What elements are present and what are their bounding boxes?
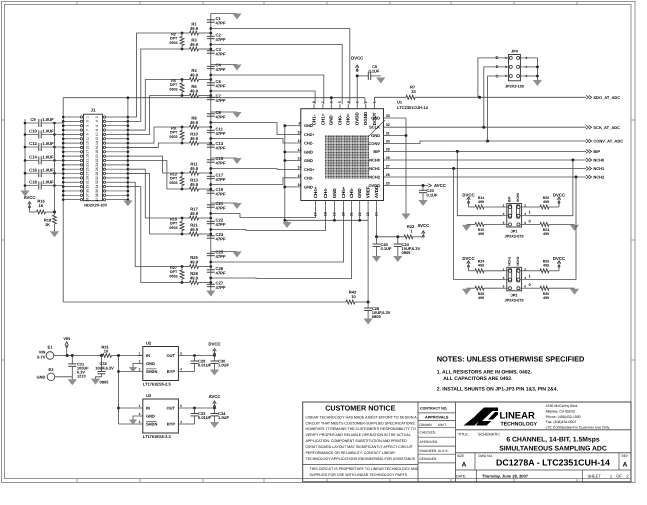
svg-text:APPROVALS: APPROVALS xyxy=(425,416,449,420)
U1 bottom pin 22 GND xyxy=(359,201,361,206)
power AVCC at R16 xyxy=(29,203,31,208)
svg-text:1.0UF: 1.0UF xyxy=(218,415,229,420)
jumper JP2 JP2X3-079 xyxy=(507,267,522,291)
svg-text:47PF: 47PF xyxy=(216,131,226,136)
wire CH4+ to U1 pin17 xyxy=(211,205,316,217)
resistor R31 10 xyxy=(72,355,102,357)
ground at C32 xyxy=(91,379,100,385)
svg-text:1: 1 xyxy=(85,116,89,118)
svg-text:GND: GND xyxy=(329,114,334,125)
svg-text:CH4+: CH4+ xyxy=(313,186,318,198)
svg-text:0.1UF: 0.1UF xyxy=(427,192,438,197)
ground at U1 bottom bus xyxy=(286,220,288,222)
wire CH5+ to U1 pin20 xyxy=(211,205,344,262)
capacitor C26 47PF xyxy=(207,269,215,271)
capacitor C15 47PF xyxy=(207,159,215,161)
svg-text:VIN: VIN xyxy=(63,336,70,341)
svg-text:NCH0: NCH0 xyxy=(593,158,605,163)
ground at C5 xyxy=(376,78,385,84)
ground tap on cap column xyxy=(211,251,237,253)
ground at C30 xyxy=(210,370,219,376)
U1 top pin 5 CH0- xyxy=(339,104,341,109)
wire U2 BYP to C29 xyxy=(183,371,194,373)
svg-text:SIMULTANEOUS SAMPLING ADC: SIMULTANEOUS SAMPLING ADC xyxy=(499,445,607,452)
svg-text:CH4-: CH4- xyxy=(323,187,328,198)
svg-text:DESIGNER:: DESIGNER: xyxy=(420,457,438,461)
svg-text:2: 2 xyxy=(626,473,629,478)
wire CH3+ to U1 pin14 xyxy=(211,168,296,171)
svg-text:5: 5 xyxy=(503,221,505,225)
ground at top of cap column xyxy=(211,13,237,15)
resistor R15 499 to ground xyxy=(484,223,503,225)
wire SCK_AT_ADC xyxy=(388,126,586,128)
svg-text:6: 6 xyxy=(524,221,526,225)
U1 left pin 16 GND xyxy=(296,186,301,188)
svg-text:14: 14 xyxy=(298,165,302,169)
svg-text:499: 499 xyxy=(478,200,484,204)
svg-text:1.0UF: 1.0UF xyxy=(42,117,54,122)
svg-text:5: 5 xyxy=(503,285,505,289)
svg-text:0.1UF: 0.1UF xyxy=(369,69,380,74)
svg-text:2: 2 xyxy=(139,412,141,416)
U1 right pin 26 NCH2 xyxy=(384,176,389,178)
svg-text:U3: U3 xyxy=(146,393,152,398)
svg-text:GND: GND xyxy=(304,184,313,189)
ground at C20 xyxy=(418,200,427,206)
svg-text:APPLICATION. COMPONENT SUBSTIT: APPLICATION. COMPONENT SUBSTITUTION AND … xyxy=(306,439,408,443)
wire NCH2 xyxy=(388,176,586,178)
wire NCH0 into JP1 pin4 xyxy=(526,160,573,216)
capacitor C40 0.1UF xyxy=(376,237,378,244)
connector J1 xyxy=(84,114,103,201)
power DVCC right of JP2 xyxy=(558,262,560,267)
svg-text:34: 34 xyxy=(95,185,99,189)
svg-text:OGND: OGND xyxy=(363,111,368,125)
svg-text:CH0+: CH0+ xyxy=(346,113,351,125)
svg-text:33: 33 xyxy=(386,114,390,118)
U1 top pin 3 OVDD xyxy=(356,104,358,109)
capacitor C34 1.0UF xyxy=(214,408,216,414)
U1 top pin 1 DOUT xyxy=(373,104,375,109)
ground at J1 right bus xyxy=(123,200,132,206)
svg-text:47PF: 47PF xyxy=(216,37,226,42)
svg-text:AVCC: AVCC xyxy=(434,183,446,188)
svg-text:GND: GND xyxy=(146,361,155,366)
svg-text:9: 9 xyxy=(85,133,89,135)
svg-text:TECHNOLOGY APPLICATIONS ENGINE: TECHNOLOGY APPLICATIONS ENGINEERING FOR … xyxy=(306,457,417,461)
wire CH2- to U1 pin11 xyxy=(211,139,296,144)
ground tap on cap column xyxy=(211,157,237,159)
node CONV_AT_ADC flag xyxy=(586,139,592,143)
svg-text:1630 McCarthy Blvd.: 1630 McCarthy Blvd. xyxy=(546,404,579,408)
svg-text:BIP: BIP xyxy=(373,149,380,154)
svg-text:32: 32 xyxy=(95,180,99,184)
U1 bottom pin 19 GND xyxy=(334,201,336,206)
svg-text:Fax: (408)434-0507: Fax: (408)434-0507 xyxy=(546,420,577,424)
svg-text:SDO_AT_ADC: SDO_AT_ADC xyxy=(593,95,620,100)
svg-text:5: 5 xyxy=(338,101,342,103)
U1 right pin 33 GND xyxy=(384,117,389,119)
svg-text:AVCC: AVCC xyxy=(417,223,429,228)
wire J1 left bus xyxy=(62,98,64,201)
svg-text:LTC2351CUH-14: LTC2351CUH-14 xyxy=(397,105,429,110)
svg-text:0: 0 xyxy=(529,282,532,287)
resistor R13 49.9 xyxy=(182,188,190,190)
svg-text:JP2: JP2 xyxy=(511,293,518,297)
U1 right pin 32 SCLK xyxy=(384,126,389,128)
svg-text:AVCC: AVCC xyxy=(24,195,36,200)
wire U1 pad to pin 33 xyxy=(369,120,385,136)
svg-text:47PF: 47PF xyxy=(216,51,226,56)
node SDO_AT_ADC flag xyxy=(586,95,592,99)
ground at C34 xyxy=(210,422,219,428)
resistor R3 49.9 xyxy=(182,48,190,50)
wire CH3- to U1 pin15 xyxy=(211,178,296,185)
svg-text:LINEAR: LINEAR xyxy=(500,410,536,421)
svg-text:10: 10 xyxy=(351,294,356,299)
svg-text:THIS CIRCUIT IS PROPRIETARY TO: THIS CIRCUIT IS PROPRIETARY TO LINEAR TE… xyxy=(310,467,419,471)
wire NCH1 xyxy=(388,168,586,170)
power DVCC right of JP1 xyxy=(558,199,560,204)
svg-text:47PF: 47PF xyxy=(216,177,226,182)
wire VREF pin23 down xyxy=(367,205,369,302)
svg-text:U2: U2 xyxy=(146,341,152,346)
U1 left pin 9 GND xyxy=(296,125,301,127)
wire J1 to R13 xyxy=(128,161,182,190)
capacitor C7 47PF xyxy=(207,96,215,98)
svg-text:DVCC: DVCC xyxy=(553,256,565,261)
svg-text:47PF: 47PF xyxy=(216,205,226,210)
svg-text:OVDD: OVDD xyxy=(368,183,380,188)
svg-text:3: 3 xyxy=(505,65,507,69)
wire AVDD pin24 rail xyxy=(376,205,378,237)
svg-text:47PF: 47PF xyxy=(216,191,226,196)
svg-text:10UF,6.3V: 10UF,6.3V xyxy=(95,366,114,371)
svg-text:GND: GND xyxy=(371,116,380,121)
U1 right pin 28 NCH0 xyxy=(384,159,389,161)
U1 right pin 30 CONV xyxy=(384,143,389,145)
svg-text:SCHEMATIC: SCHEMATIC xyxy=(478,432,500,436)
svg-text:23: 23 xyxy=(85,163,89,167)
ground at U3 GND pin xyxy=(133,416,138,420)
svg-text:J1: J1 xyxy=(91,107,96,112)
svg-text:15: 15 xyxy=(298,174,302,178)
capacitor C2 47PF xyxy=(207,35,215,37)
op-amp U1 LTC2351CUH-14 outline xyxy=(301,109,384,201)
U1 bottom pin 17 CH4+ xyxy=(315,201,317,206)
capacitor C31 100UF 6.3V 1210 xyxy=(67,355,72,357)
svg-text:35: 35 xyxy=(85,189,89,193)
capacitor C5 0.1UF xyxy=(357,75,368,77)
svg-text:DVCC: DVCC xyxy=(462,192,474,197)
power DVCC at U2 output xyxy=(214,350,216,355)
U1 bottom pin 21 CH5- xyxy=(351,201,353,206)
svg-text:GND: GND xyxy=(37,374,46,379)
wire OVDD pin25 to AVCC xyxy=(388,185,428,187)
svg-text:1: 1 xyxy=(505,56,507,60)
svg-text:11: 11 xyxy=(85,137,89,141)
svg-text:47PF: 47PF xyxy=(216,98,226,103)
wire reference bus down to R16 node xyxy=(54,123,56,212)
svg-text:SHDN: SHDN xyxy=(146,369,157,374)
svg-text:NCH2: NCH2 xyxy=(369,175,381,180)
svg-text:4: 4 xyxy=(95,120,99,122)
svg-text:PERFORMANCE OR RELIABILITY. C: PERFORMANCE OR RELIABILITY. CONTACT LINE… xyxy=(306,451,396,455)
capacitor C13 47PF xyxy=(207,144,215,146)
svg-text:17: 17 xyxy=(314,212,318,216)
capacitor C21 47PF xyxy=(207,204,215,206)
ground at U1 right GND xyxy=(401,214,410,220)
svg-text:0.1UF: 0.1UF xyxy=(381,246,392,251)
svg-text:47PF: 47PF xyxy=(216,270,226,275)
wire NCH1 into JP2 pin3 xyxy=(454,169,503,280)
svg-text:47PF: 47PF xyxy=(216,20,226,25)
capacitor C3 47PF xyxy=(207,50,215,52)
svg-text:OF: OF xyxy=(616,473,622,478)
ground at C40 xyxy=(372,256,381,262)
ground tap on cap column xyxy=(211,64,237,66)
svg-text:GND: GND xyxy=(146,414,155,419)
svg-text:1.0UF: 1.0UF xyxy=(42,167,54,172)
capacitor C1 47PF xyxy=(207,19,215,21)
wire JP4 pin3 to SCK line xyxy=(484,67,505,127)
resistor R14 499 xyxy=(468,203,470,207)
svg-text:JP2X3-100: JP2X3-100 xyxy=(505,85,524,89)
capacitor C33 0.01UF xyxy=(194,408,196,414)
svg-text:0: 0 xyxy=(529,218,532,223)
svg-text:CH3-: CH3- xyxy=(304,175,314,180)
svg-text:CIRUIT BOARD LAYOUT MAY SIGNIF: CIRUIT BOARD LAYOUT MAY SIGNIFICANTLY AF… xyxy=(306,445,414,449)
ground tap on cap column xyxy=(211,111,237,113)
svg-text:SIZE: SIZE xyxy=(457,454,464,458)
svg-text:14: 14 xyxy=(95,141,99,145)
svg-text:32: 32 xyxy=(386,123,390,127)
U1 top pin 7 CH1+ xyxy=(322,104,324,109)
svg-text:CH1+: CH1+ xyxy=(320,113,325,125)
svg-text:GND: GND xyxy=(304,158,313,163)
power AVCC at U3 output xyxy=(214,403,216,408)
U1 bottom pin 20 CH5+ xyxy=(343,201,345,206)
resistor R12 OPT 0603 xyxy=(180,177,184,186)
svg-text:49.9: 49.9 xyxy=(190,26,199,31)
svg-text:SHEET: SHEET xyxy=(588,473,602,478)
wire JP4 pins 2,4,6 to ground xyxy=(524,58,537,80)
svg-text:31: 31 xyxy=(85,180,89,184)
svg-text:5: 5 xyxy=(180,351,182,355)
svg-text:13: 13 xyxy=(298,157,302,161)
svg-text:4: 4 xyxy=(346,101,350,103)
U1 bottom pin 18 CH4- xyxy=(325,201,327,206)
wire J1 right bus xyxy=(127,98,129,201)
U1 bottom pin 23 VREF xyxy=(367,201,369,206)
Linear Technology logo xyxy=(456,429,632,431)
svg-text:49.9: 49.9 xyxy=(190,120,199,125)
ground right of JP1 xyxy=(570,225,579,231)
node BIP flag xyxy=(586,150,592,154)
wire J1 to R11 xyxy=(128,156,182,173)
svg-text:GND: GND xyxy=(332,187,337,198)
resistor R10 49.9 xyxy=(182,142,190,144)
svg-text:JP4: JP4 xyxy=(511,50,519,54)
capacitor C23 47PF xyxy=(207,235,215,237)
svg-text:4: 4 xyxy=(180,367,182,371)
svg-text:9: 9 xyxy=(299,122,301,126)
svg-text:1: 1 xyxy=(503,267,505,271)
svg-text:499: 499 xyxy=(478,296,484,300)
svg-text:1: 1 xyxy=(529,274,532,279)
svg-text:499: 499 xyxy=(543,264,549,268)
ground right of JP2 xyxy=(570,289,579,295)
wire DOUT from U1 pin1 xyxy=(373,97,375,104)
resistor R28 49.9 xyxy=(182,282,190,284)
resistor R8 49.9 xyxy=(182,126,190,128)
svg-text:39: 39 xyxy=(85,198,89,202)
regulator U3 LT1761ES5-3.3 xyxy=(143,399,179,433)
svg-text:OUT: OUT xyxy=(167,406,176,411)
capacitor C25 47PF xyxy=(207,252,215,254)
ground left of JP2 xyxy=(462,289,471,295)
U1 top pin 8 CH1- xyxy=(313,104,315,109)
wire J1 to R4 xyxy=(128,80,182,131)
svg-text:C12: C12 xyxy=(29,141,37,146)
power VIN arrow xyxy=(66,346,68,356)
wire U3 BYP to C33 xyxy=(183,423,194,425)
svg-text:1: 1 xyxy=(610,473,613,478)
svg-text:REV: REV xyxy=(622,454,629,458)
wire JP4 pin1 to SDO line xyxy=(478,58,505,97)
svg-text:SUPPLIED FOR USE WITH LINEAR T: SUPPLIED FOR USE WITH LINEAR TECHNOLOGY … xyxy=(310,473,409,477)
svg-text:U1: U1 xyxy=(397,100,403,105)
svg-text:IN: IN xyxy=(146,406,150,411)
capacitor C20 0.1UF xyxy=(422,186,424,191)
ground at U2 GND pin xyxy=(133,364,138,368)
svg-text:10: 10 xyxy=(95,132,99,136)
svg-text:49.9: 49.9 xyxy=(190,166,199,171)
svg-text:0805: 0805 xyxy=(372,314,382,319)
svg-text:CH5-: CH5- xyxy=(349,187,354,198)
wire J1 to R1 xyxy=(128,33,182,117)
svg-text:1210: 1210 xyxy=(77,373,86,378)
capacitor C16 1.0UF xyxy=(25,172,38,174)
wire BIP xyxy=(388,150,586,152)
wire CH5- to U1 pin21 xyxy=(211,205,352,278)
svg-text:TECHNOLOGY: TECHNOLOGY xyxy=(501,422,538,428)
ground at input cap bus xyxy=(20,191,29,197)
wire U1 right GND pins 33,31 xyxy=(388,117,406,119)
svg-text:12: 12 xyxy=(95,137,99,141)
svg-text:47PF: 47PF xyxy=(216,145,226,150)
ground tap on cap column xyxy=(211,202,237,204)
svg-text:47PF: 47PF xyxy=(216,83,226,88)
svg-text:13: 13 xyxy=(85,141,89,145)
U1 right pin 31 GND xyxy=(384,135,389,137)
capacitor C9 1.0UF xyxy=(25,122,38,124)
svg-text:NCH2: NCH2 xyxy=(516,256,520,265)
svg-text:DWG NO.: DWG NO. xyxy=(479,454,493,458)
wire CH2+ to U1 pin10 xyxy=(211,123,296,135)
capacitor C30 1.0UF xyxy=(214,356,216,362)
wire J1 to R25 xyxy=(128,182,182,266)
svg-text:2: 2 xyxy=(524,267,526,271)
svg-text:1.0UF: 1.0UF xyxy=(218,363,229,368)
wire CH1- to U1 pin8 xyxy=(211,91,315,104)
resistor R30 499 to ground xyxy=(526,287,540,289)
svg-text:11: 11 xyxy=(298,139,302,143)
svg-text:2: 2 xyxy=(524,204,526,208)
resistor R26 499 to ground xyxy=(484,287,503,289)
svg-text:3: 3 xyxy=(503,212,505,216)
power DVCC above U1 xyxy=(356,76,358,104)
svg-text:BIP: BIP xyxy=(593,149,600,154)
svg-text:3: 3 xyxy=(85,120,89,122)
svg-text:1: 1 xyxy=(139,404,141,408)
svg-text:C16: C16 xyxy=(29,167,37,172)
svg-text:1K: 1K xyxy=(45,222,50,227)
svg-text:25: 25 xyxy=(386,182,390,186)
svg-text:18: 18 xyxy=(95,150,99,154)
svg-text:0.01UF: 0.01UF xyxy=(198,363,212,368)
power DVCC left of JP1 xyxy=(468,199,470,204)
U1 right pin 25 OVDD xyxy=(384,185,389,187)
svg-text:CH0-: CH0- xyxy=(337,114,342,125)
svg-text:40: 40 xyxy=(95,198,99,202)
svg-text:499: 499 xyxy=(543,200,549,204)
wire reference to R43 xyxy=(62,200,64,302)
svg-text:HOWEVER, IT REMAINS THE CUSTOM: HOWEVER, IT REMAINS THE CUSTOMER'S RESPO… xyxy=(306,427,416,431)
wire J1 to R8 xyxy=(128,127,182,143)
svg-text:KIM T.: KIM T. xyxy=(438,423,447,427)
svg-text:2: 2 xyxy=(364,101,368,103)
svg-text:E1: E1 xyxy=(48,345,54,350)
U1 left pin 10 CH2+ xyxy=(296,134,301,136)
node NCH2 flag xyxy=(586,175,592,179)
svg-text:JP2X3-079: JP2X3-079 xyxy=(505,235,524,239)
resistor R4 49.9 xyxy=(182,79,190,81)
svg-text:GND: GND xyxy=(357,187,362,198)
wire CH0- to U1 pin5 xyxy=(211,45,342,105)
capacitor C12 1.0UF xyxy=(25,146,38,148)
wire U2 OUT rail to DVCC xyxy=(183,355,214,357)
wire NCH0 xyxy=(388,159,586,161)
svg-text:ENGINEER: GUY K.: ENGINEER: GUY K. xyxy=(420,449,449,453)
svg-text:A: A xyxy=(462,462,467,469)
svg-text:LT1761ES5-3.3: LT1761ES5-3.3 xyxy=(143,434,172,439)
svg-text:47PF: 47PF xyxy=(216,254,226,259)
wire filter cap column xyxy=(210,14,212,291)
svg-text:6 CHANNEL, 14-BIT, 1.5Msps: 6 CHANNEL, 14-BIT, 1.5Msps xyxy=(506,436,600,443)
svg-text:NCH1: NCH1 xyxy=(508,256,512,265)
svg-text:4: 4 xyxy=(524,212,526,216)
svg-text:0603: 0603 xyxy=(169,87,177,91)
svg-text:27: 27 xyxy=(85,172,89,176)
resistor R29 499 xyxy=(526,270,540,272)
svg-text:499: 499 xyxy=(478,232,484,236)
power AVCC at R22 xyxy=(422,232,424,237)
svg-text:47PF: 47PF xyxy=(216,285,226,290)
svg-text:ALL CAPACITORS ARE 0402.: ALL CAPACITORS ARE 0402. xyxy=(443,376,513,382)
svg-text:GND: GND xyxy=(371,133,380,138)
svg-text:20: 20 xyxy=(95,154,99,158)
ground at C31/E2 xyxy=(68,379,77,385)
svg-text:OUT: OUT xyxy=(167,353,176,358)
capacitor C27 47PF xyxy=(207,283,215,285)
svg-text:NCH0: NCH0 xyxy=(516,193,520,202)
svg-text:CONV: CONV xyxy=(368,141,380,146)
svg-text:27: 27 xyxy=(386,165,390,169)
svg-text:1.0UF: 1.0UF xyxy=(42,180,54,185)
capacitor C17 47PF xyxy=(207,175,215,177)
svg-text:6: 6 xyxy=(524,285,526,289)
